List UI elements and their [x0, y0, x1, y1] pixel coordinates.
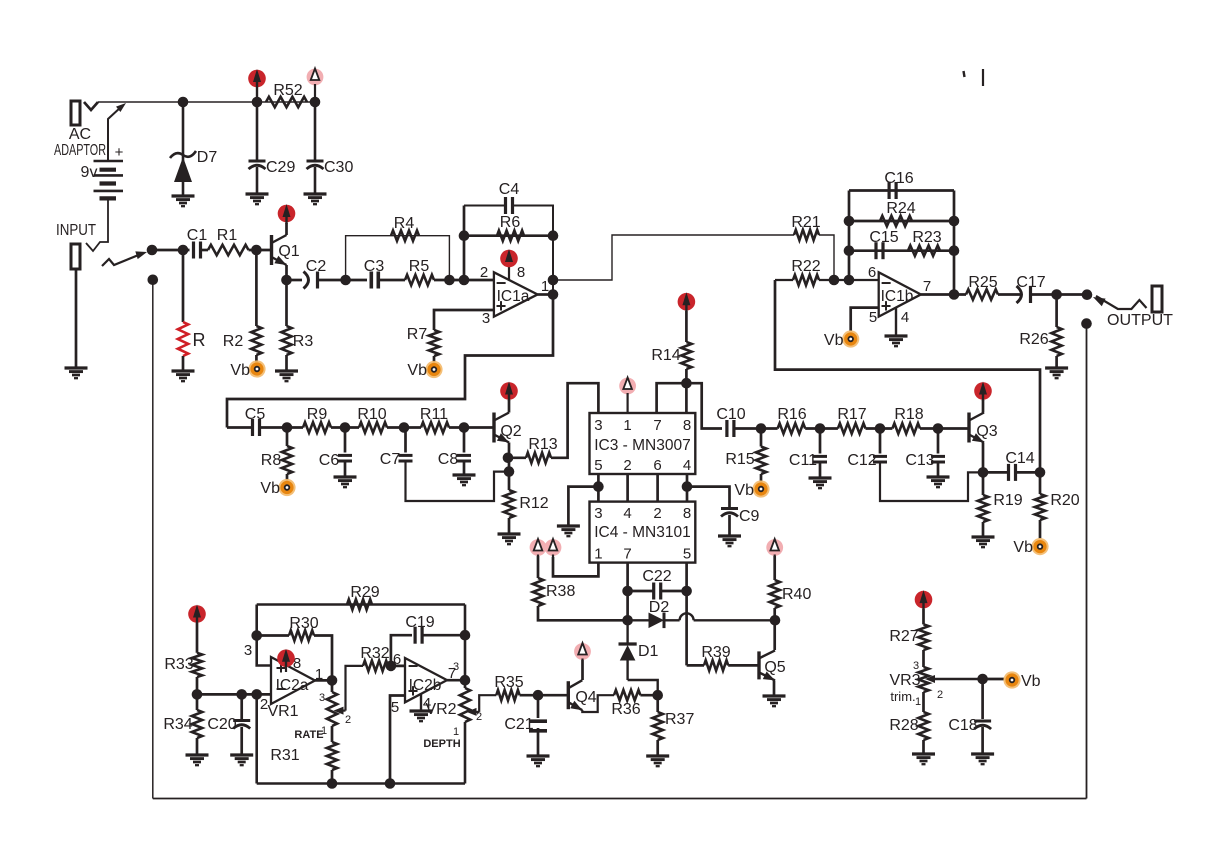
svg-text:R20: R20: [1050, 492, 1079, 509]
top supply rail: [98, 101, 315, 103]
svg-text:R29: R29: [350, 584, 379, 601]
label D7: [197, 149, 218, 166]
wire R13 to IC3 pin3: [551, 383, 598, 458]
wire C4 top: [464, 205, 506, 207]
junction R4 left: [340, 275, 351, 286]
wire Q5 emitter: [773, 681, 776, 697]
+9V supply at R14: [678, 292, 696, 311]
wire R34 to ground: [196, 738, 199, 755]
label R28: [889, 717, 918, 734]
label R9: [307, 406, 328, 423]
ground C13: [927, 477, 950, 487]
IC4 pin 7: [623, 546, 631, 563]
resistor R16: [778, 423, 806, 433]
svg-text:+: +: [881, 296, 892, 316]
resistor R36: [614, 690, 640, 700]
svg-text:9v: 9v: [81, 164, 98, 181]
svg-text:R8: R8: [261, 452, 282, 469]
wire R5 to opamp minus: [434, 279, 494, 282]
wire IC3 pin6 to IC4 pin2: [656, 474, 659, 502]
label R8: [261, 452, 282, 469]
svg-text:ADAPTOR: ADAPTOR: [54, 142, 106, 159]
label R40: [782, 586, 811, 603]
wire R32 to IC2b: [388, 665, 405, 668]
label R36: [611, 701, 640, 718]
svg-text:R3: R3: [293, 333, 314, 350]
wire C11 stub: [819, 429, 822, 454]
IC2b plus: [408, 681, 419, 701]
wire R3 to ground: [285, 355, 288, 371]
junction C14/R20: [1035, 467, 1046, 478]
svg-text:R33: R33: [164, 656, 193, 673]
wire VR1 to R31: [331, 726, 334, 742]
power switch arrow wire from battery: [108, 107, 121, 161]
junction Q1 emitter / R3: [281, 275, 292, 286]
op-amp IC2a: [271, 657, 315, 704]
label R34: [163, 716, 192, 733]
wire C11 to ground: [819, 462, 822, 478]
svg-text:R36: R36: [611, 701, 640, 718]
capacitor C7: [399, 455, 413, 461]
label R5: [409, 258, 430, 275]
label C13: [905, 452, 934, 469]
svg-text:7: 7: [623, 546, 631, 563]
svg-text:R35: R35: [494, 674, 523, 691]
wire R28 to ground: [922, 740, 925, 754]
wire R14 junction to C10: [686, 383, 722, 428]
svg-text:R37: R37: [665, 711, 694, 728]
wire C5 to R9: [260, 426, 304, 429]
wire R6 loop left: [463, 206, 466, 281]
IC2a pin 8: [293, 655, 301, 672]
+9V supply at Q3: [974, 382, 992, 402]
svg-text:R6: R6: [500, 214, 521, 231]
power switch arrowhead: [116, 103, 126, 112]
wire LFO left vertical: [257, 605, 271, 666]
IC2a minus: [276, 679, 287, 699]
svg-text:Q1: Q1: [278, 243, 299, 260]
junction R31 bus: [327, 778, 338, 789]
resistor R38: [533, 578, 543, 606]
capacitor C14: [1009, 464, 1016, 481]
node bypass output: [1081, 318, 1092, 329]
svg-text:R38: R38: [546, 583, 575, 600]
capacitor C1: [194, 242, 201, 259]
Vdd/2 supply at IC4 pin1: [545, 539, 562, 557]
svg-text:1: 1: [915, 696, 921, 708]
IC IC4 MN3101: [590, 502, 696, 563]
IC2b pin4 stub: [420, 693, 422, 711]
node output: [1082, 289, 1093, 300]
wire to C30: [314, 102, 317, 161]
Vdd/2 supply at IC3 pin1: [619, 378, 636, 414]
svg-text:R10: R10: [357, 406, 386, 423]
svg-text:5: 5: [594, 457, 602, 474]
wire C21 stub: [537, 695, 540, 718]
IC1b pin 4: [901, 309, 909, 326]
svg-text:−: −: [408, 656, 419, 676]
wire R37 stub: [656, 695, 659, 712]
label R26: [1019, 331, 1048, 348]
label RATE: [294, 729, 323, 741]
svg-text:C12: C12: [847, 452, 876, 469]
IC2a pin 2: [260, 696, 268, 713]
Vdd/2 supply at R40: [766, 539, 783, 556]
+9V supply marker: [248, 69, 266, 102]
svg-text:8: 8: [683, 505, 691, 522]
capacitor C18: [974, 721, 991, 729]
svg-text:R27: R27: [889, 628, 918, 645]
wire R37 to ground: [656, 740, 659, 756]
wire VR1 wiper to R32: [346, 666, 364, 711]
wire IC2b output: [447, 679, 465, 682]
wire C29 to ground: [256, 167, 259, 194]
wire R15 column: [760, 429, 763, 447]
wire C10 to R16: [734, 427, 778, 430]
resistor R30: [289, 630, 314, 640]
wire to C29: [256, 102, 259, 161]
wire R30 right: [314, 636, 332, 681]
wire R29 line: [257, 603, 465, 606]
VR1 pin 1: [321, 725, 327, 737]
wire R24 line: [849, 220, 954, 223]
node bypass input: [148, 275, 159, 286]
wire IC1a output: [538, 293, 553, 296]
wire C12 bootstrap loop: [880, 462, 983, 501]
wire C9 tap: [687, 487, 730, 507]
diode D7 (zener): [170, 151, 196, 196]
IC2a pin 1: [315, 666, 323, 683]
svg-text:2: 2: [476, 711, 482, 723]
INPUT jack: [71, 244, 80, 269]
bypass switch lever: [102, 254, 141, 266]
label C19: [405, 614, 434, 631]
wire R15 to Vb: [760, 474, 763, 482]
wire C14 to R20: [1016, 471, 1041, 474]
IC2a power pin stub: [285, 654, 287, 672]
svg-text:INPUT: INPUT: [56, 222, 96, 239]
svg-text:R18: R18: [894, 406, 923, 423]
IC1a plus: [496, 296, 507, 316]
label R11: [420, 406, 448, 423]
battery negative wire to input jack: [86, 198, 108, 251]
label C2: [306, 258, 327, 275]
label R31: [270, 747, 299, 764]
IC3 pin 5: [594, 457, 602, 474]
svg-text:VR3: VR3: [889, 672, 920, 689]
resistor R15: [756, 447, 766, 475]
resistor R33: [192, 653, 202, 677]
label R20: [1050, 492, 1079, 509]
label C5: [245, 406, 266, 423]
capacitor C21: [529, 721, 547, 731]
svg-text:R31: R31: [270, 747, 299, 764]
svg-text:+: +: [115, 144, 124, 161]
label Q1: [278, 243, 299, 260]
svg-text:D1: D1: [638, 643, 659, 660]
junction rail/D7: [178, 97, 189, 108]
junction R21/R22: [829, 275, 840, 286]
VR1 pin 3: [319, 692, 325, 704]
wire R27 top: [922, 609, 925, 624]
resistor R12: [504, 490, 514, 518]
ground Q5: [763, 696, 786, 706]
capacitor C20: [233, 721, 250, 729]
+9V supply at R27: [915, 590, 933, 609]
VR2 pin 2: [476, 711, 482, 723]
label +: [115, 144, 124, 161]
junction D1/D2: [622, 615, 633, 626]
svg-text:C6: C6: [319, 452, 340, 469]
ground R34: [186, 755, 209, 765]
svg-text:R16: R16: [777, 406, 806, 423]
svg-text:R: R: [193, 330, 206, 350]
AC adaptor jack: [71, 101, 80, 125]
svg-text:4: 4: [901, 309, 909, 326]
capacitor C17: [1017, 286, 1031, 303]
svg-text:C14: C14: [1005, 450, 1034, 467]
ground IC1b pin4: [885, 336, 908, 346]
label R33: [164, 656, 193, 673]
svg-text:5: 5: [391, 699, 399, 716]
label C10: [716, 406, 745, 423]
capacitor C3: [371, 272, 378, 289]
wire R14 to pin7: [657, 383, 687, 413]
svg-text:R21: R21: [791, 214, 820, 231]
svg-text:R52: R52: [273, 82, 302, 99]
wire C5 line left: [227, 426, 253, 429]
resistor R2: [251, 326, 261, 355]
wire C7 bootstrap loop: [406, 461, 510, 501]
svg-text:3: 3: [244, 642, 252, 659]
IC2a pin 3: [244, 642, 252, 659]
wire C2 to C3: [318, 279, 368, 282]
capacitor C12: [873, 456, 887, 462]
wire C20 to ground: [240, 727, 243, 755]
resistor R21: [794, 230, 819, 240]
label C17: [1016, 274, 1045, 291]
junction R36/R37/D1: [652, 690, 663, 701]
svg-text:C17: C17: [1016, 274, 1045, 291]
junction IC1a out: [548, 289, 559, 300]
capacitor C2: [304, 272, 318, 289]
label R27: [889, 628, 918, 645]
wire R11 to Q2 base: [449, 426, 494, 429]
Vdd/2 supply at Q4: [574, 643, 591, 660]
IC2a plus: [276, 658, 287, 678]
label R52: [273, 82, 302, 99]
wire R27 to VR3: [922, 650, 925, 667]
ground C20: [230, 755, 253, 765]
label Q3: [976, 423, 997, 440]
wire Q2 emitter: [508, 443, 511, 491]
svg-text:C8: C8: [438, 451, 459, 468]
resistor R35: [496, 690, 519, 700]
ground IC4 pin3 tap: [557, 526, 580, 536]
label C6: [319, 452, 340, 469]
IC3 pin 3: [594, 417, 602, 434]
svg-text:C9: C9: [739, 508, 760, 525]
label OUTPUT: [1107, 312, 1173, 329]
ground R37: [646, 756, 669, 766]
stray mark vertical tick: [982, 69, 984, 86]
resistor R32: [363, 661, 388, 671]
wire R31 to bus: [331, 770, 334, 784]
ground R: [172, 371, 195, 381]
svg-text:Q3: Q3: [976, 423, 997, 440]
wire R33 top: [196, 623, 199, 653]
wire C17 to output node: [1031, 293, 1088, 296]
label R37: [665, 711, 694, 728]
junction pin7/C22: [622, 586, 633, 597]
label R32: [360, 645, 389, 662]
VR2 pin 3: [453, 661, 459, 673]
label VR2: [425, 701, 456, 718]
wire R22 bus: [775, 280, 1040, 472]
wire input node to C1: [152, 249, 190, 252]
IC2b pin 6: [393, 651, 401, 668]
label C29: [266, 159, 295, 176]
IC4 pin 8: [683, 505, 691, 522]
label R1: [217, 227, 238, 244]
IC4 pin 1: [594, 546, 602, 563]
svg-text:6: 6: [393, 651, 401, 668]
transistor Q1: [272, 235, 287, 265]
svg-text:8: 8: [683, 417, 691, 434]
label C16: [884, 170, 913, 187]
Vb marker IC1b pin5: [824, 330, 859, 349]
label VR1: [267, 703, 298, 720]
IC1b pin 7: [923, 278, 931, 295]
diode D2: [628, 613, 775, 629]
wire R20 to Vb: [1039, 520, 1042, 539]
svg-text:Q2: Q2: [500, 423, 521, 440]
IC1a pin 8: [517, 264, 525, 281]
svg-text:R23: R23: [912, 229, 941, 246]
wire R25 to C17: [998, 293, 1022, 296]
stray mark apostrophe: [964, 71, 965, 77]
potentiometer VR2 DEPTH: [460, 688, 479, 722]
+9V supply at R33: [188, 605, 206, 624]
op-amp IC1b: [879, 272, 921, 316]
wire R17 to R18: [866, 427, 893, 430]
wire C20 stub: [240, 694, 243, 719]
capacitor C29: [249, 161, 266, 169]
label C11: [789, 452, 817, 469]
label R2: [223, 333, 244, 350]
resistor R40: [770, 580, 780, 608]
wire R22 line: [775, 279, 793, 281]
ground R26: [1045, 368, 1068, 378]
ground C6: [334, 477, 357, 487]
wire R8 to Vb: [286, 474, 289, 481]
svg-text:7: 7: [653, 417, 661, 434]
+9V supply at IC2a pin 8: [277, 649, 295, 667]
wire C4 top right: [513, 206, 554, 297]
svg-text:1: 1: [623, 417, 631, 434]
junction fb left R24: [844, 216, 855, 227]
Vb marker R2: [230, 360, 265, 379]
svg-text:Vb: Vb: [1013, 539, 1033, 556]
wire C30 to ground: [314, 167, 317, 194]
wire R2 to Vb: [255, 355, 258, 362]
svg-text:C29: C29: [266, 159, 295, 176]
wire C21 to ground: [537, 728, 540, 756]
Vb marker R7: [407, 361, 442, 379]
wire R8 column: [286, 428, 289, 447]
wire R34 stub: [196, 694, 199, 710]
label R4: [394, 215, 415, 232]
transistor Q5: [759, 650, 775, 680]
ground R3: [275, 371, 298, 381]
wire R39 line: [687, 664, 704, 667]
wire C13 to ground: [937, 462, 940, 477]
wire R39 to Q5 base: [728, 664, 759, 667]
wire C22 line: [628, 590, 654, 593]
svg-text:R24: R24: [886, 200, 915, 217]
svg-text:C16: C16: [884, 170, 913, 187]
label C7: [380, 451, 401, 468]
svg-text:+: +: [408, 681, 419, 701]
junction pin4/pin8 C9 tap: [682, 481, 693, 492]
resistor R5: [405, 275, 434, 285]
wire C16 line: [849, 189, 954, 192]
IC3 pin 2: [623, 457, 631, 474]
resistor R3: [281, 326, 291, 355]
ground C29: [246, 194, 269, 204]
ground C11: [809, 478, 832, 488]
svg-text:C20: C20: [207, 716, 236, 733]
transistor Q3: [969, 413, 984, 443]
wire fb right vertical: [953, 191, 956, 295]
capacitor C13: [931, 456, 945, 462]
resistor R25: [966, 289, 998, 299]
label trim.: [890, 689, 915, 704]
wire R40 top: [773, 556, 776, 580]
label R22: [791, 258, 820, 275]
label R3: [293, 333, 314, 350]
capacitor C6: [338, 455, 352, 461]
wire R3 column: [285, 280, 288, 326]
label INPUT: [56, 222, 96, 239]
junction C12: [875, 423, 886, 434]
label IC1b: [881, 288, 914, 305]
svg-text:Q4: Q4: [575, 689, 596, 706]
wire IC2a pin2 to bus: [255, 694, 258, 783]
bypass wire right: [1086, 324, 1088, 799]
ground input jack: [65, 368, 88, 378]
junction R15: [756, 423, 767, 434]
wire R14 top: [685, 311, 688, 342]
label Q5: [764, 659, 785, 676]
capacitor C19: [415, 627, 422, 644]
wire R9 to R10: [331, 426, 359, 429]
label C1: [187, 227, 208, 244]
IC3 pin 6: [653, 457, 661, 474]
IC3 pin 1: [623, 417, 631, 434]
Vdd/2 supply marker near R52: [307, 69, 324, 103]
svg-text:7: 7: [923, 278, 931, 295]
junction IC1b out: [949, 289, 960, 300]
svg-text:D7: D7: [197, 149, 218, 166]
wire IC4 pin7 down: [626, 563, 629, 621]
svg-text:8: 8: [517, 264, 525, 281]
wire rail to D7: [182, 102, 185, 162]
junction C13: [933, 423, 944, 434]
wire R to ground: [182, 356, 185, 371]
label Q2: [500, 423, 521, 440]
OUTPUT switch lever: [1096, 296, 1147, 309]
